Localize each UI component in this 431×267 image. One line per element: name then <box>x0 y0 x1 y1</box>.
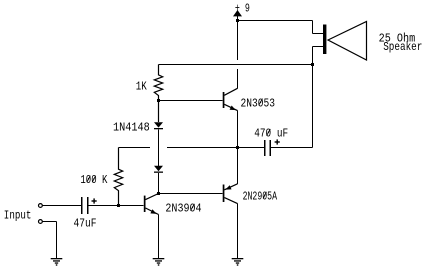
svg-text:2N3904: 2N3904 <box>165 202 201 216</box>
svg-text:Speaker: Speaker <box>383 40 422 54</box>
svg-text:1K: 1K <box>136 80 148 94</box>
svg-text:47uF: 47uF <box>74 217 97 231</box>
svg-text:2N3053: 2N3053 <box>241 97 276 111</box>
svg-text:100 K: 100 K <box>80 173 108 187</box>
svg-text:+ 9: + 9 <box>235 1 250 15</box>
svg-text:470 uF: 470 uF <box>254 127 288 141</box>
svg-text:Input: Input <box>4 209 32 223</box>
svg-text:2N2905A: 2N2905A <box>243 190 278 204</box>
svg-text:1N4148: 1N4148 <box>113 120 150 134</box>
